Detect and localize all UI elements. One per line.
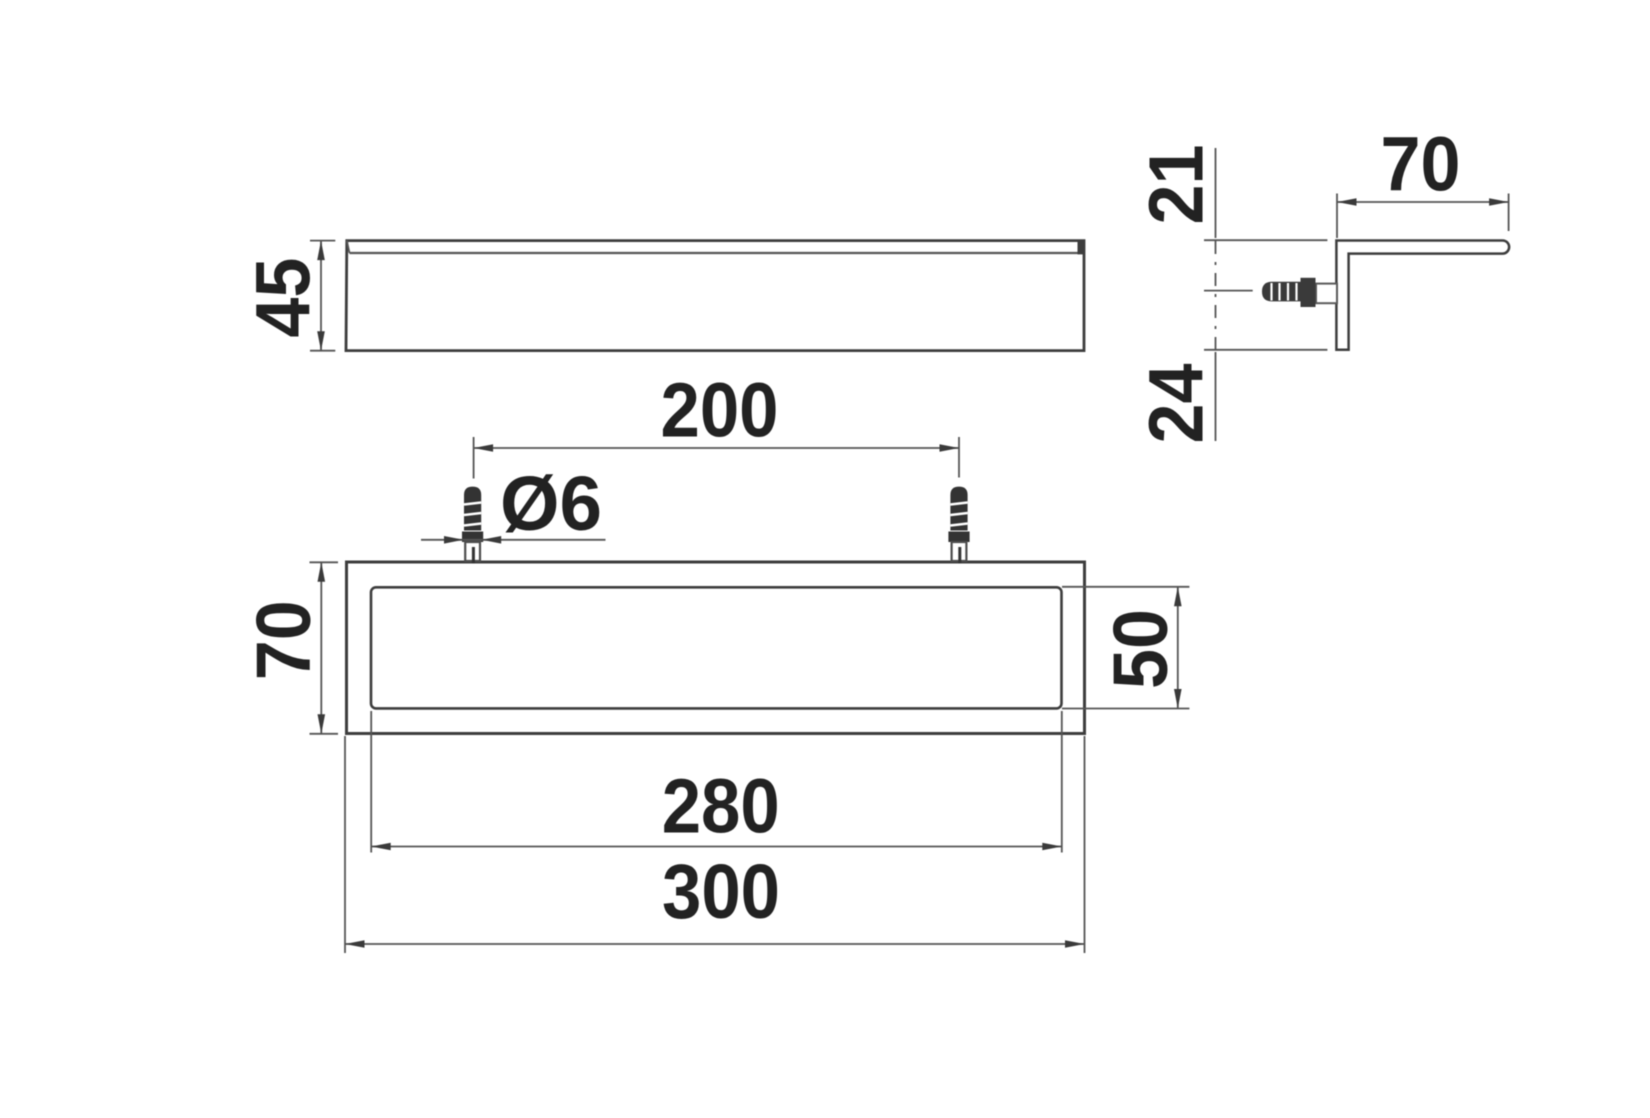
svg-text:50: 50 [1098, 609, 1184, 689]
dim 200 arrow left [474, 444, 494, 452]
svg-text:70: 70 [1381, 122, 1461, 208]
dim 200 extension left [473, 437, 475, 479]
dim 70 side extension right [1508, 194, 1510, 232]
dim d6 arrow pointing right at screw [444, 536, 464, 544]
shelf lip right end cap [1078, 241, 1085, 255]
left screw [462, 487, 483, 564]
dim 300 line [345, 943, 1085, 945]
dim d6 line [421, 539, 606, 541]
dim 70 side arrow right [1489, 198, 1509, 206]
dim 280 extension right [1061, 711, 1063, 853]
svg-text:200: 200 [661, 368, 779, 454]
dim 300 extension right [1084, 736, 1086, 953]
side screw neck [1316, 284, 1337, 304]
wall center line top solid [1215, 148, 1217, 238]
svg-text:300: 300 [662, 849, 780, 935]
side screw thread slits [1270, 283, 1272, 301]
tick at shelf top level [1204, 239, 1327, 241]
dim 45 arrow down [317, 331, 325, 351]
dim 300 arrow left [345, 940, 365, 948]
dim 70 side arrow left [1337, 198, 1357, 206]
dim 200 line [474, 447, 959, 449]
dim 45 line [320, 241, 322, 351]
dim 280 arrow left [371, 843, 391, 851]
dim 50 arrow down [1174, 689, 1182, 709]
wall center line bottom solid [1215, 352, 1217, 441]
dim 70 side line [1337, 201, 1509, 203]
dim 70 front extension top [310, 561, 339, 563]
svg-text:21: 21 [1134, 145, 1220, 225]
svg-text:280: 280 [662, 764, 780, 850]
shelf lip left chamfer [347, 241, 350, 253]
svg-text:70: 70 [241, 600, 327, 680]
dim 45 extension top [310, 240, 335, 242]
dim 50 arrow up [1174, 587, 1182, 607]
inner rectangle [371, 587, 1062, 708]
L bracket profile [1336, 241, 1509, 350]
dim 45 arrow up [317, 241, 325, 261]
shelf bar outline [346, 241, 1084, 351]
shelf top lip line [350, 252, 1078, 254]
svg-text:45: 45 [241, 258, 327, 338]
dim 200 extension right [958, 437, 960, 478]
side screw collar [1301, 278, 1316, 307]
side screw threaded anchor [1262, 282, 1301, 302]
dim 280 extension left [370, 711, 372, 853]
dim 45 extension bottom [310, 350, 335, 352]
tick at screw axis [1204, 290, 1253, 292]
dim 50 extension top [1062, 586, 1189, 588]
wall center line middle dashed [1215, 241, 1217, 349]
dim 70 front arrow down [318, 714, 326, 734]
svg-text:24: 24 [1134, 363, 1220, 443]
dim d6 arrow pointing left at screw [482, 536, 502, 544]
dim 280 line [371, 846, 1062, 848]
right screw [948, 487, 969, 564]
dim 50 line [1177, 587, 1179, 709]
dim 300 extension left [344, 736, 346, 953]
dim 300 arrow right [1065, 940, 1085, 948]
dim 280 arrow right [1042, 843, 1062, 851]
outer rectangle [347, 562, 1085, 734]
dim 200 arrow right [940, 444, 960, 452]
dim 70 front arrow up [318, 562, 326, 582]
tick at bracket bottom [1204, 349, 1327, 351]
dim 70 front extension bottom [310, 733, 339, 735]
dim 70 front line [320, 562, 322, 734]
dim 70 side extension left [1336, 194, 1338, 239]
svg-text:Ø6: Ø6 [500, 461, 602, 547]
dim 50 extension bottom [1062, 708, 1189, 710]
